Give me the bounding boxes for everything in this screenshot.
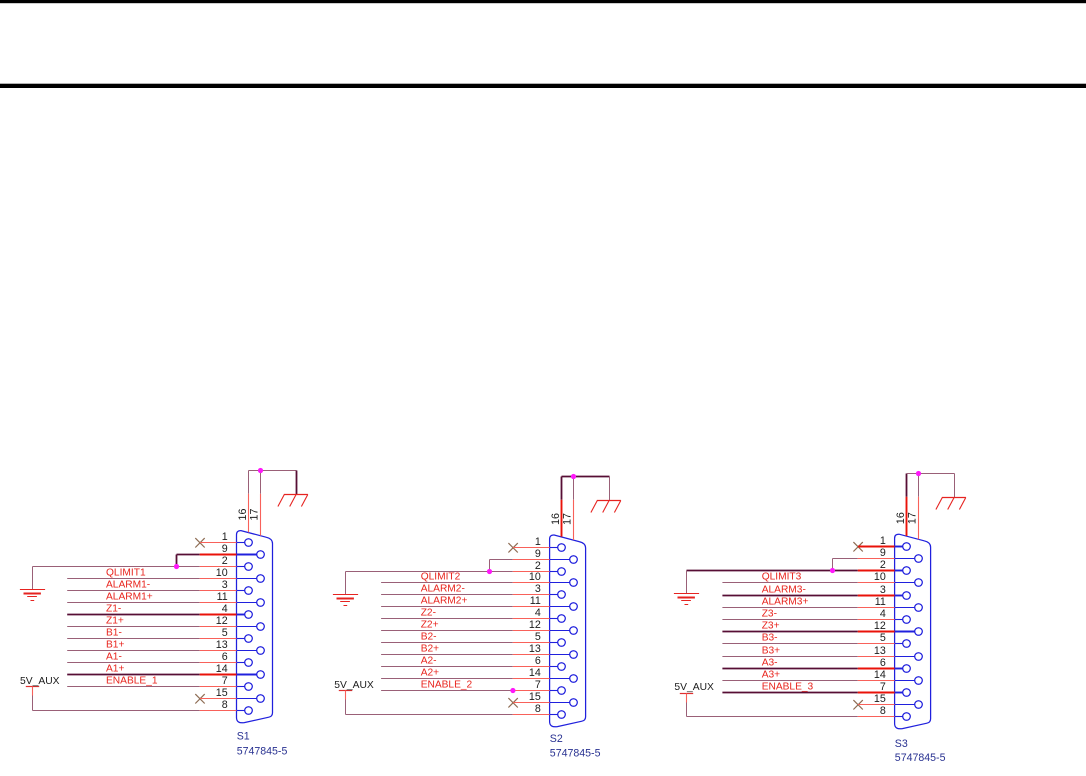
svg-text:ENABLE_2: ENABLE_2: [421, 680, 473, 691]
svg-text:12: 12: [216, 615, 228, 627]
svg-text:17: 17: [249, 509, 261, 521]
wire net ALARM1- to pin 3 (S1): [67, 590, 236, 592]
svg-text:ALARM2-: ALARM2-: [421, 584, 465, 595]
svg-text:9: 9: [222, 543, 228, 555]
wire net ENABLE_1 to pin 7 (S1): [67, 686, 236, 688]
svg-text:QLIMIT1: QLIMIT1: [106, 568, 146, 579]
power symbol 5V_AUX (S2): [339, 691, 352, 715]
svg-text:ALARM1+: ALARM1+: [106, 592, 153, 603]
wire stub pin 15 (S1): [200, 698, 237, 700]
connector S2 pin 2: [550, 568, 566, 576]
svg-text:Z2+: Z2+: [421, 620, 439, 631]
ground symbol (earth ground) S3: [674, 594, 699, 605]
connector S1 pin 12: [237, 623, 265, 631]
wire net B2- to pin 5 (S2): [381, 642, 549, 644]
wire stub pin 1 (S3): [858, 546, 895, 548]
svg-text:4: 4: [535, 607, 541, 619]
chassis ground symbol (S2): [591, 501, 621, 513]
wire net ALARM2+ to pin 11 (S2): [381, 606, 549, 608]
wire net 5V_AUX to pin 8 (S3): [687, 716, 895, 718]
wire net QLIMIT1 to pin 10 (S1): [67, 578, 236, 580]
wire net A3- to pin 6 (S3): [722, 668, 894, 670]
svg-text:7: 7: [880, 681, 886, 693]
junction QLIMIT3 (S3): [830, 568, 835, 573]
no-connect X on pin 1 (S2): [508, 543, 517, 552]
svg-text:ALARM3-: ALARM3-: [762, 585, 806, 596]
connector S2 pin 6: [550, 663, 566, 671]
svg-text:S1: S1: [237, 730, 250, 742]
svg-text:Z1-: Z1-: [106, 604, 121, 615]
svg-text:5V_AUX: 5V_AUX: [334, 680, 374, 691]
svg-text:9: 9: [535, 548, 541, 560]
svg-text:1: 1: [880, 535, 886, 547]
no-connect X on pin 15 (S2): [508, 698, 517, 707]
svg-text:ALARM2+: ALARM2+: [421, 596, 468, 607]
connector S2 pin 3: [550, 591, 566, 599]
connector S3 pin 11: [895, 604, 923, 612]
svg-text:ALARM1-: ALARM1-: [106, 580, 150, 591]
connector S2 pin 15: [550, 699, 578, 707]
wire net ALARM2- to pin 3 (S2): [381, 594, 549, 596]
wire pin 17 (S2): [573, 477, 575, 541]
wire to chassis ground (S1): [249, 471, 297, 495]
connector S2 pin 14: [550, 675, 578, 683]
svg-text:2: 2: [880, 559, 886, 571]
svg-text:13: 13: [216, 639, 228, 651]
svg-text:ALARM3+: ALARM3+: [762, 597, 809, 608]
junction on pin 17 wire (S2): [571, 474, 576, 479]
svg-text:12: 12: [874, 620, 886, 632]
connector S2 pin 8: [550, 711, 566, 719]
connector S3 body: [895, 534, 931, 729]
chassis ground symbol (S1): [278, 495, 308, 507]
wire net QLIMIT2: pin 2 to ground (S2): [346, 572, 550, 595]
svg-text:15: 15: [874, 693, 886, 705]
junction on ENABLE_2 wire (S2): [510, 688, 515, 693]
svg-text:A1+: A1+: [106, 664, 124, 675]
wire net QLIMIT2 to pin 10 (S2): [381, 582, 549, 584]
svg-text:14: 14: [529, 667, 541, 679]
wire net ALARM3+ to pin 11 (S3): [722, 607, 894, 609]
wire net A3+ to pin 14 (S3): [722, 680, 894, 682]
wire to chassis ground (S2): [562, 477, 610, 501]
svg-text:Z1+: Z1+: [106, 616, 124, 627]
svg-text:16: 16: [895, 512, 907, 524]
svg-text:4: 4: [222, 603, 228, 615]
svg-text:S2: S2: [550, 733, 563, 745]
wire net B2+ to pin 13 (S2): [381, 654, 549, 656]
ground symbol (earth ground) S1: [20, 590, 45, 601]
connector S3 pin 7: [895, 689, 911, 697]
svg-text:17: 17: [562, 513, 574, 525]
svg-text:Z2-: Z2-: [421, 608, 436, 619]
svg-text:1: 1: [535, 536, 541, 548]
svg-text:5: 5: [880, 632, 886, 644]
connector S3 pin 15: [895, 701, 923, 709]
svg-text:5V_AUX: 5V_AUX: [674, 682, 714, 693]
connector S3 pin 5: [895, 640, 911, 648]
svg-text:A3+: A3+: [762, 670, 780, 681]
svg-text:7: 7: [222, 675, 228, 687]
svg-text:11: 11: [530, 595, 541, 607]
svg-text:10: 10: [874, 571, 886, 583]
wire to chassis ground (S3): [907, 474, 955, 498]
svg-text:11: 11: [217, 591, 228, 603]
connector S3 pin 6: [895, 665, 911, 673]
wire net Z2- to pin 4 (S2): [381, 618, 549, 620]
wire net QLIMIT3 to pin 10 (S3): [722, 582, 894, 584]
wire stub pin 1 (S1): [200, 542, 237, 544]
ground symbol (earth ground) S2: [333, 595, 358, 606]
wire net B1+ to pin 13 (S1): [67, 650, 236, 652]
svg-text:15: 15: [529, 691, 541, 703]
wire net ALARM3- to pin 3 (S3): [722, 595, 894, 597]
svg-text:6: 6: [880, 657, 886, 669]
wire net ALARM1+ to pin 11 (S1): [67, 602, 236, 604]
no-connect X on pin 15 (S3): [853, 700, 862, 709]
connector S3 pin 14: [895, 677, 923, 685]
connector S1 pin 5: [237, 635, 253, 643]
wire stub pin 15 (S3): [858, 704, 895, 706]
connector S1 pin 14: [237, 671, 265, 679]
svg-text:12: 12: [529, 619, 541, 631]
svg-text:A2+: A2+: [421, 668, 439, 679]
svg-text:A1-: A1-: [106, 652, 122, 663]
power symbol 5V_AUX (S3): [680, 694, 693, 717]
svg-text:Z3+: Z3+: [762, 621, 780, 632]
connector S1 pin 4: [237, 611, 253, 619]
wire net QLIMIT3: pin 2 to ground (S3): [687, 571, 895, 594]
junction on pin 17 wire (S1): [258, 468, 263, 473]
svg-text:17: 17: [907, 512, 919, 524]
svg-text:14: 14: [216, 663, 228, 675]
wire net A2- to pin 6 (S2): [381, 666, 549, 668]
chassis ground symbol (S3): [936, 498, 966, 510]
wire pin 17 (S3): [918, 474, 920, 540]
svg-text:3: 3: [222, 579, 228, 591]
svg-text:15: 15: [216, 687, 228, 699]
svg-text:5747845-5: 5747845-5: [550, 747, 601, 759]
connector S2 pin 9: [550, 556, 578, 564]
svg-text:8: 8: [880, 705, 886, 717]
no-connect X on pin 1 (S3): [853, 542, 862, 551]
connector S3 pin 1: [895, 543, 911, 551]
wire pin 17 (S1): [260, 471, 262, 536]
svg-text:5V_AUX: 5V_AUX: [20, 676, 60, 687]
svg-text:3: 3: [535, 583, 541, 595]
svg-text:A2-: A2-: [421, 656, 437, 667]
svg-text:1: 1: [222, 531, 228, 543]
junction on pin 17 wire (S3): [916, 471, 921, 476]
svg-text:B2-: B2-: [421, 632, 437, 643]
connector S1 pin 10: [237, 575, 265, 583]
wire net ENABLE_3 to pin 7 (S3): [722, 692, 894, 694]
connector S1 pin 1: [237, 539, 253, 547]
connector S1 pin 8: [237, 707, 253, 715]
wire stub pin 1 (S2): [513, 547, 550, 549]
wire net Z3+ to pin 12 (S3): [722, 631, 894, 633]
connector S2 pin 10: [550, 579, 578, 587]
svg-text:16: 16: [550, 513, 562, 525]
svg-text:5: 5: [535, 631, 541, 643]
wire pin 9 branch of QLIMIT3 (S3): [833, 559, 895, 571]
connector S2 body: [550, 535, 586, 727]
svg-text:3: 3: [880, 584, 886, 596]
svg-text:6: 6: [535, 655, 541, 667]
connector S1 pin 2: [237, 563, 253, 571]
wire net Z2+ to pin 12 (S2): [381, 630, 549, 632]
wire pin 16 (S3): [906, 474, 908, 536]
connector S3 pin 4: [895, 616, 911, 624]
svg-text:11: 11: [875, 596, 886, 608]
svg-text:4: 4: [880, 608, 886, 620]
svg-text:13: 13: [874, 645, 886, 657]
svg-text:B3+: B3+: [762, 646, 780, 657]
wire net Z3- to pin 4 (S3): [722, 619, 894, 621]
no-connect X on pin 15 (S1): [195, 694, 204, 703]
wire net 5V_AUX to pin 8 (S2): [346, 714, 550, 716]
connector S3 pin 12: [895, 628, 923, 636]
no-connect X on pin 1 (S1): [195, 538, 204, 547]
svg-text:7: 7: [535, 679, 541, 691]
wire net QLIMIT1: pin 2 to ground (S1): [33, 567, 237, 590]
wire net Z1+ to pin 12 (S1): [67, 626, 236, 628]
svg-text:B1-: B1-: [106, 628, 122, 639]
junction QLIMIT2 (S2): [487, 569, 492, 574]
connector S3 pin 8: [895, 713, 911, 721]
power symbol 5V_AUX (S1): [26, 687, 39, 711]
svg-text:ENABLE_1: ENABLE_1: [106, 676, 158, 687]
svg-text:B1+: B1+: [106, 640, 124, 651]
wire net B3+ to pin 13 (S3): [722, 656, 894, 658]
connector S1 pin 9: [237, 551, 265, 559]
connector S2 pin 1: [550, 544, 566, 552]
svg-text:6: 6: [222, 651, 228, 663]
connector S1 body: [237, 531, 273, 723]
wire net B3- to pin 5 (S3): [722, 643, 894, 645]
svg-text:ENABLE_3: ENABLE_3: [762, 682, 814, 693]
connector S1 pin 13: [237, 647, 265, 655]
svg-text:Z3-: Z3-: [762, 609, 777, 620]
wire net ENABLE_2 to pin 7 (S2): [381, 690, 549, 692]
svg-text:S3: S3: [895, 738, 908, 750]
connector S1 pin 15: [237, 695, 265, 703]
svg-text:10: 10: [216, 567, 228, 579]
connector S2 pin 4: [550, 615, 566, 623]
connector S1 pin 11: [237, 599, 265, 607]
connector S3 pin 13: [895, 653, 923, 661]
svg-text:5747845-5: 5747845-5: [895, 752, 946, 764]
junction QLIMIT1 (S1): [174, 564, 179, 569]
connector S2 pin 5: [550, 639, 566, 647]
connector S1 pin 7: [237, 683, 253, 691]
svg-text:B2+: B2+: [421, 644, 439, 655]
connector S3 pin 3: [895, 592, 911, 600]
svg-text:10: 10: [529, 571, 541, 583]
wire net 5V_AUX to pin 8 (S1): [33, 710, 237, 712]
svg-text:8: 8: [222, 699, 228, 711]
wire pin 9 branch of QLIMIT2 (S2): [490, 560, 550, 572]
svg-text:5747845-5: 5747845-5: [237, 746, 288, 758]
svg-text:14: 14: [874, 669, 886, 681]
svg-text:13: 13: [529, 643, 541, 655]
svg-text:B3-: B3-: [762, 633, 778, 644]
svg-text:2: 2: [222, 555, 228, 567]
wire net A1- to pin 6 (S1): [67, 662, 236, 664]
wire pin 16 (S2): [561, 477, 563, 537]
wire net B1- to pin 5 (S1): [67, 638, 236, 640]
connector S2 pin 7: [550, 687, 566, 695]
wire pin 16 (S1): [248, 471, 250, 533]
connector S2 pin 12: [550, 627, 578, 635]
svg-text:QLIMIT3: QLIMIT3: [762, 572, 802, 583]
connector S3 pin 2: [895, 567, 911, 575]
connector S1 pin 6: [237, 659, 253, 667]
connector S2 pin 11: [550, 603, 578, 611]
svg-text:A3-: A3-: [762, 658, 778, 669]
connector S1 pin 3: [237, 587, 253, 595]
connector S3 pin 9: [895, 555, 923, 563]
svg-text:8: 8: [535, 703, 541, 715]
wire pin 9 branch of QLIMIT1 (S1): [177, 555, 237, 567]
svg-text:16: 16: [237, 509, 249, 521]
connector S2 pin 13: [550, 651, 578, 659]
connector S3 pin 10: [895, 579, 923, 587]
wire net A2+ to pin 14 (S2): [381, 678, 549, 680]
svg-text:9: 9: [880, 547, 886, 559]
wire net Z1- to pin 4 (S1): [67, 614, 236, 616]
svg-text:5: 5: [222, 627, 228, 639]
wire stub pin 15 (S2): [513, 702, 550, 704]
wire net A1+ to pin 14 (S1): [67, 674, 236, 676]
svg-text:QLIMIT2: QLIMIT2: [421, 572, 461, 583]
